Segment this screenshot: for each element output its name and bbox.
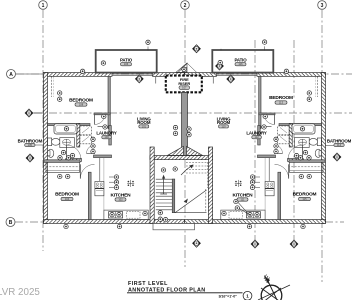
svg-text:PATIO: PATIO [234,58,247,63]
svg-text:FIRST LEVEL: FIRST LEVEL [128,281,168,287]
svg-text:111: 111 [241,198,245,202]
svg-text:BATHROOM: BATHROOM [327,138,352,143]
svg-text:103: 103 [104,135,109,139]
svg-text:113: 113 [279,101,284,105]
svg-text:PATIO: PATIO [120,58,133,63]
svg-text:108: 108 [79,103,84,107]
svg-text:115: 115 [302,197,307,201]
svg-text:LAUNDRY: LAUNDRY [246,130,266,135]
svg-text:3: 3 [321,3,324,9]
svg-text:ROOM: ROOM [217,120,231,125]
svg-text:102: 102 [118,198,123,202]
svg-text:104: 104 [65,197,70,201]
svg-text:101: 101 [142,124,147,128]
svg-text:B: B [9,220,13,226]
svg-text:BEDROOM: BEDROOM [269,95,293,101]
svg-text:3/16"=1'-0": 3/16"=1'-0" [218,295,237,299]
svg-text:ROOM: ROOM [137,120,151,125]
svg-text:110: 110 [221,124,226,128]
svg-text:114: 114 [337,143,342,147]
svg-text:1: 1 [42,3,45,9]
svg-text:BATHROOM: BATHROOM [18,138,43,143]
svg-text:107: 107 [182,86,187,90]
svg-text:BEDROOM: BEDROOM [55,192,79,198]
svg-text:LVR 2025: LVR 2025 [0,287,40,298]
svg-text:105: 105 [28,143,33,147]
svg-text:BEDROOM: BEDROOM [293,192,317,198]
svg-text:2: 2 [184,3,187,9]
svg-text:106: 106 [124,62,129,66]
svg-text:1: 1 [246,294,249,299]
svg-text:RISER: RISER [178,81,190,86]
svg-text:112: 112 [255,135,260,139]
svg-text:A: A [9,72,13,78]
svg-text:116: 116 [238,62,243,66]
svg-text:LAUNDRY: LAUNDRY [96,130,116,135]
